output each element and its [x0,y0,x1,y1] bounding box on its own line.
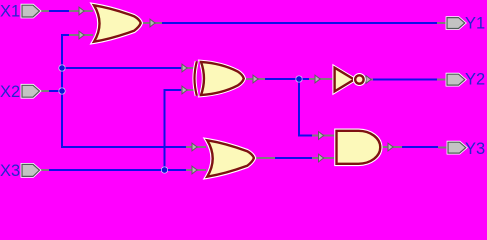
arrowhead OR3 input 1 [192,143,197,151]
pin X2 connector stub [38,90,49,92]
pin Y2 connector stub [437,79,447,81]
arrowhead XOR input 1 [182,64,187,72]
input connector X1 [22,5,40,17]
not-gate U4 (inverter) [335,68,364,92]
pin OR3 input 1 [186,146,206,148]
wire X3 to OR3 input 2 [40,169,187,171]
junction node X2 tee [59,88,65,94]
output connector Y3 [448,142,466,153]
pin AND input 2 [312,157,336,159]
wire OR1 output to Y1 [162,22,437,24]
arrowhead OR1 output [150,19,155,27]
output connector Y2 [447,74,465,85]
xor-gate U2 (middle) [195,61,244,95]
pin AND input 1 [312,135,336,137]
pin XOR input 1 [181,67,196,69]
wire junction to XOR input 1 [62,67,181,69]
pin OR1 input 2 [69,34,93,36]
and-gate U5 [337,131,381,164]
svg-text:X1: X1 [0,3,20,21]
pin NOT input [309,78,334,80]
pin NOT output [365,79,374,81]
svg-text:X2: X2 [0,83,20,101]
wire junction down to OR3 input 1 [62,91,186,147]
pin X3 connector stub [38,169,49,171]
wire X2 to junction [40,90,63,92]
wire OR3 output to AND input 2 [275,157,312,159]
pin OR1 output [140,22,162,24]
input connector X2 [22,85,40,97]
pin AND output [381,146,402,148]
pin XOR input 2 [181,89,196,91]
wire NOT output to Y2 [373,79,437,81]
svg-text:Y1: Y1 [465,15,485,33]
wire junction down to AND input 1 [299,79,312,136]
arrowhead XOR output [253,75,258,83]
arrowhead OR1 input 1 [79,7,84,15]
arrowhead OR1 input 2 [79,31,84,39]
svg-text:Y3: Y3 [465,140,485,158]
wire X1 gray stubs [38,10,49,12]
wire X3 junction up to XOR input 2 [165,90,182,170]
pin OR3 input 2 [186,169,206,171]
arrowhead AND input 2 [319,154,324,162]
junction node XOR output tap [296,76,302,82]
arrowhead AND input 1 [319,132,324,140]
pin OR3 output [254,157,276,159]
pin XOR output [244,78,265,80]
arrowhead OR3 input 2 [192,166,197,174]
wire XOR output to NOT input [265,78,309,80]
wire X1 to OR1 (blue segment) [40,10,70,12]
arrowhead NOT output [366,76,371,84]
output connector Y1 [447,18,465,29]
pin OR1 input 1 [69,10,93,12]
svg-text:X3: X3 [0,162,20,180]
input connector X3 [22,164,40,176]
arrowhead XOR input 2 [182,86,187,94]
wire AND output to Y3 [402,146,438,148]
pin Y3 connector stub [438,147,448,149]
wire X2 junction to OR1 input 2 [62,35,69,91]
arrowhead AND output [388,143,393,151]
or-gate U1 (OR, top) [94,5,141,41]
pin Y1 connector stub [437,22,447,24]
svg-text:Y2: Y2 [465,71,485,89]
junction node X3 tap [161,167,167,173]
junction node XOR input 1 tap [59,65,65,71]
arrowhead NOT input [315,75,320,83]
or-gate U3 (OR, bottom) [207,140,254,176]
